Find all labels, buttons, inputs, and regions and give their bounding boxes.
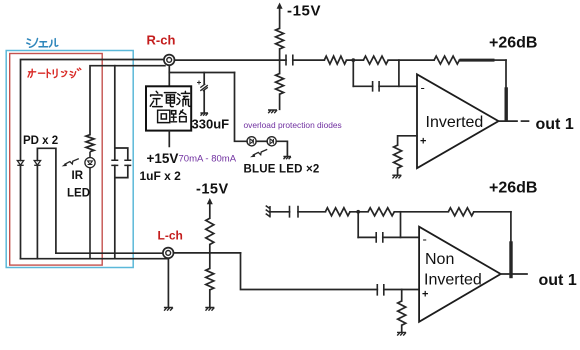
- capacitor C parallel (R-ch): [373, 81, 380, 92]
- wire R1 to node B: [350, 211, 368, 213]
- shell box (blue): [6, 51, 133, 268]
- wire U2 output: [501, 273, 527, 275]
- wire feedback to output (thick): [459, 60, 506, 121]
- svg-text:PD x 2: PD x 2: [23, 135, 58, 147]
- supply arrow -15V (R): [277, 3, 283, 29]
- resistor R2 (R-ch): [363, 56, 388, 64]
- supply arrow -15V (L): [207, 198, 213, 218]
- ground 330uF: [200, 113, 208, 116]
- op-amp U2 (Non Inverted): [419, 227, 501, 322]
- shell label (shell katakana): [27, 39, 58, 48]
- wire LED supply from IR chain to R-ch jack sleeve: [90, 66, 165, 135]
- junction node A: [351, 58, 355, 62]
- wire PD2 cathode to common bus: [36, 165, 38, 258]
- connector L-ch jack: [163, 248, 174, 259]
- wire node A down to input wire: [352, 60, 354, 86]
- svg-text:out 1: out 1: [539, 272, 577, 289]
- wire + node down to resistor (L): [401, 290, 403, 302]
- svg-text:-: -: [423, 232, 427, 247]
- resistor R1 (L-ch): [325, 208, 350, 216]
- connector R-ch jack: [164, 55, 175, 66]
- photodiode PD1: [17, 161, 23, 166]
- junction node B: [356, 210, 360, 214]
- wire L-ch jack to corner: [174, 252, 241, 254]
- photodiode PD2: [34, 161, 40, 166]
- wire L-ch signal bus: [56, 252, 163, 254]
- IR LED D1: [85, 152, 95, 259]
- svg-text:+26dB: +26dB: [489, 35, 537, 52]
- resistor input load (L): [206, 268, 214, 290]
- resistor feedback (L-ch): [448, 208, 474, 216]
- light arrow (IR emission): [62, 159, 79, 167]
- wire BLUE LEDs to ground: [276, 141, 287, 156]
- svg-text:LED: LED: [67, 188, 90, 200]
- wire input lower to cap: [353, 85, 372, 87]
- CC box kanji line1 (constant current): [150, 91, 190, 106]
- wire L-ch jack sleeve to ground: [167, 258, 169, 307]
- svg-text:1uF x 2: 1uF x 2: [140, 169, 182, 183]
- svg-text:+15V: +15V: [147, 151, 179, 166]
- wire node B down: [357, 212, 359, 238]
- ground L-ch jack: [164, 308, 173, 311]
- wire cap to R1 (L): [298, 211, 325, 213]
- capacitor 330uF electrolytic: [197, 73, 208, 113]
- resistor U2 + to ground: [398, 301, 406, 325]
- svg-text:Inverted: Inverted: [424, 272, 482, 289]
- svg-text:Inverted: Inverted: [426, 114, 484, 131]
- svg-text:-: -: [421, 80, 425, 95]
- ground U2 + (L): [397, 332, 406, 335]
- wire -15V resistor to node (L): [209, 245, 211, 253]
- wire cap to op-amp inverting input: [379, 85, 417, 87]
- resistor R2 (L-ch): [368, 208, 394, 216]
- ground reference (L-ch inverting input): [266, 206, 270, 218]
- resistor IR LED series: [86, 135, 94, 152]
- capacitor C parallel (L-ch): [376, 232, 383, 243]
- svg-text:L-ch: L-ch: [158, 229, 183, 243]
- wire + resistor to ground: [397, 168, 399, 174]
- ground input load (L): [205, 308, 214, 311]
- CC box kanji line2 (circuit): [158, 110, 187, 123]
- wire ground to cap (L): [270, 211, 290, 213]
- svg-text:-15V: -15V: [196, 182, 229, 198]
- cartridge label (cartridge katakana): [28, 68, 81, 78]
- ground BLUE LEDs: [283, 157, 291, 160]
- wire node to load resistor (L): [209, 253, 211, 269]
- wire bypass caps top: [115, 66, 128, 161]
- cartridge box (red): [10, 54, 103, 266]
- capacitor 1uF (b): [124, 160, 131, 165]
- BLUE LED D2: [247, 137, 256, 146]
- wire R1 to node A: [347, 59, 364, 61]
- wire lower to cap (L): [358, 236, 376, 238]
- wire + resistor to ground (L): [401, 325, 403, 332]
- wire cap to U2 + input: [384, 289, 419, 291]
- resistor R to -15V: [276, 28, 284, 49]
- capacitor C input (R-ch): [286, 55, 293, 66]
- wire bypass caps bottom: [115, 165, 128, 258]
- wire CC box to +15V stub: [168, 131, 170, 147]
- wire L signal to + cap: [241, 253, 378, 290]
- wire node to load resistor: [279, 60, 281, 73]
- wire cap to R1: [293, 59, 325, 61]
- wire PD2 anode bracket to L-ch signal: [37, 148, 56, 253]
- wire U1 output: [499, 120, 518, 122]
- wire R2 node down to inverting input (L): [400, 212, 402, 238]
- capacitor C input (L-ch): [377, 284, 384, 296]
- svg-text:+26dB: +26dB: [489, 180, 537, 197]
- capacitor C ground leg (L-ch): [290, 206, 299, 218]
- svg-text:R-ch: R-ch: [147, 33, 176, 48]
- svg-text:overload protection diodes: overload protection diodes: [244, 120, 342, 130]
- wire -15V resistor to node: [279, 49, 281, 60]
- BLUE LED D3: [267, 137, 276, 146]
- svg-text:IR: IR: [72, 170, 84, 182]
- wire R2 to feedback resistor (L): [394, 211, 448, 213]
- svg-text:out 1: out 1: [536, 116, 574, 133]
- wire U1 + input: [398, 136, 417, 145]
- op-amp U1 (Inverted): [417, 74, 499, 168]
- resistor U1 + to ground: [394, 145, 402, 168]
- wire jack sleeve to LED string: [169, 72, 234, 74]
- wire common bus (to L-ch jack sleeve): [21, 258, 169, 260]
- wire jack sleeve to CC box: [168, 65, 170, 86]
- capacitor 1uF (a): [111, 160, 118, 165]
- wire PD1 cathode to common bus: [20, 165, 22, 258]
- resistor R input load: [276, 74, 284, 95]
- resistor feedback (R-ch): [434, 56, 459, 64]
- resistor R1 (R-ch): [324, 56, 346, 64]
- wire R-ch signal: PD1 top to R-ch jack: [21, 60, 164, 161]
- resistor to -15V (L): [206, 218, 214, 244]
- wire R2 to feedback resistor: [388, 59, 434, 61]
- wire cap to U2 inverting input: [383, 236, 419, 238]
- svg-text:BLUE LED ×2: BLUE LED ×2: [244, 164, 320, 176]
- wire R-ch jack to input node: [175, 59, 286, 61]
- wire between BLUE LEDs: [256, 140, 267, 142]
- light arrow (BLUE LED): [250, 149, 267, 157]
- svg-text:-15V: -15V: [287, 3, 321, 20]
- wire load resistor to ground (L): [209, 290, 211, 307]
- wire R2 node down to inverting input: [398, 60, 400, 86]
- svg-text:70mA - 80mA: 70mA - 80mA: [179, 154, 237, 165]
- wire feedback to output (thick, L): [474, 212, 511, 277]
- wire to BLUE LEDs: [235, 73, 248, 142]
- constant current circuit box: [146, 86, 191, 130]
- ground input load (R): [268, 110, 277, 113]
- svg-text:+: +: [420, 136, 426, 148]
- wire load resistor to ground: [279, 94, 281, 109]
- ground U1 + (R): [392, 175, 401, 178]
- svg-text:330uF: 330uF: [192, 117, 230, 132]
- svg-text:Non: Non: [425, 251, 454, 268]
- svg-text:+: +: [422, 289, 428, 301]
